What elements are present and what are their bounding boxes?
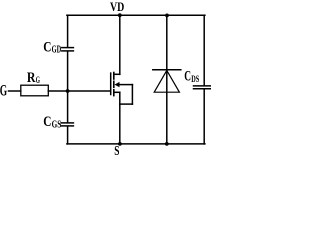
svg-text:VD: VD: [110, 0, 124, 14]
node source dot bottom: [118, 142, 122, 146]
node diode dot top: [165, 14, 169, 18]
wire bottom bus S rail: [67, 143, 205, 145]
wire left vertical lower: [67, 126, 69, 143]
capacitor CGS: [61, 123, 73, 126]
wire G lead: [9, 90, 21, 92]
node gate dot: [66, 89, 70, 93]
svg-text:G: G: [36, 76, 41, 86]
svg-text:S: S: [114, 144, 119, 157]
node drain dot top: [118, 13, 122, 17]
wire left vertical middle: [67, 52, 69, 123]
capacitor CGD: [62, 48, 74, 51]
svg-text:G: G: [0, 83, 7, 100]
svg-text:C: C: [43, 114, 51, 130]
resistor RG: [21, 85, 49, 96]
svg-text:C: C: [184, 69, 191, 85]
wire gate node to gate: [68, 90, 110, 92]
svg-text:C: C: [43, 39, 51, 55]
wire left vertical upper: [67, 15, 69, 47]
svg-text:GS: GS: [52, 119, 62, 130]
svg-text:DS: DS: [191, 75, 199, 85]
wire drain vertical: [119, 15, 121, 74]
wire right branch lower: [203, 89, 205, 144]
wire top bus VD rail: [67, 14, 205, 16]
wire resistor to gate node: [48, 90, 67, 92]
node diode dot bottom: [165, 142, 169, 146]
capacitor CDS: [194, 86, 212, 89]
wire right branch upper: [203, 15, 205, 85]
transistor Q1 MOSFET: [111, 73, 133, 105]
svg-text:R: R: [27, 70, 36, 86]
wire source vertical: [119, 92, 121, 144]
diode D1 body diode: [153, 15, 181, 144]
svg-text:GD: GD: [52, 44, 62, 55]
